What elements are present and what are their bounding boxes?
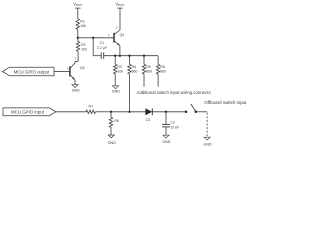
offboard dashed return wire: [206, 113, 208, 138]
wire R1 to node A: [77, 29, 79, 37]
wire R8 to ground: [110, 127, 112, 135]
svg-text:GND: GND: [112, 90, 121, 94]
svg-text:R8: R8: [114, 119, 119, 123]
ground under C2: [162, 135, 169, 138]
switch S1 right contact: [195, 111, 198, 114]
net flag MCU GPIO input: [3, 108, 56, 116]
ground under Q2: [71, 85, 78, 88]
svg-text:10k: 10k: [80, 24, 86, 28]
Q1 emitter arrow: [117, 43, 120, 45]
wire C1 branch to C1 left plate: [93, 55, 101, 57]
junction C1 branch: [92, 37, 94, 39]
svg-text:R6: R6: [160, 65, 165, 69]
wire MCU GPIO output to Q2 base: [54, 71, 70, 73]
svg-text:2: 2: [75, 57, 77, 61]
junction R4 on rail: [128, 111, 130, 113]
svg-text:D1: D1: [146, 118, 151, 122]
junction node A (R1/R2/base line): [77, 37, 79, 39]
svg-text:R3: R3: [117, 65, 122, 69]
wire Q2 collector up: [74, 61, 76, 63]
wire R8 junction to D1: [111, 111, 145, 113]
net flag MCU GPIO output: [3, 67, 55, 76]
svg-text:R2: R2: [81, 43, 86, 47]
svg-text:Q2: Q2: [80, 66, 85, 70]
wire R8 down: [110, 112, 112, 118]
switch S1 lever: [191, 104, 196, 111]
svg-text:MCU GPIO output: MCU GPIO output: [14, 69, 50, 74]
wire VBATT1 to R1: [77, 8, 79, 19]
resistor R8: [109, 117, 112, 127]
wire switch to offboard return: [196, 111, 207, 113]
svg-text:GND: GND: [203, 143, 212, 147]
svg-text:10k: 10k: [117, 70, 123, 74]
svg-text:R5: R5: [146, 65, 151, 69]
wire C1 branch down: [92, 38, 94, 56]
wire R7 to R8 junction: [96, 111, 112, 113]
svg-text:100: 100: [81, 48, 87, 52]
resistor R2: [76, 41, 79, 51]
transistor Q2 base bar: [69, 66, 71, 76]
svg-text:1: 1: [67, 66, 69, 70]
svg-text:GND: GND: [108, 141, 117, 145]
transistor Q1 base bar: [113, 33, 115, 43]
svg-text:VBATT: VBATT: [73, 2, 83, 8]
svg-text:MCU GPIO input: MCU GPIO input: [11, 110, 45, 115]
wire input flag to R7: [56, 111, 86, 113]
wire D1 to switch: [152, 111, 186, 113]
wire C1 branch to Q1 base: [93, 37, 114, 39]
svg-text:Offboard switch input: Offboard switch input: [204, 100, 247, 105]
switch S1 left contact: [185, 111, 188, 114]
svg-text:1: 1: [108, 33, 110, 37]
svg-text:10 nF: 10 nF: [170, 125, 179, 129]
ground under R3: [112, 86, 119, 89]
svg-text:GND: GND: [72, 88, 81, 92]
open stub under R5 (additional switch tap): [143, 74, 145, 87]
wire node to R3: [114, 56, 116, 64]
junction R3 tap: [114, 55, 116, 57]
resistor R5: [142, 64, 145, 74]
open stub under R6 (additional switch tap): [157, 74, 159, 87]
resistor R6: [156, 64, 159, 74]
wire node to R5: [143, 56, 145, 64]
wire C2 to ground: [165, 127, 167, 135]
svg-text:R4: R4: [132, 65, 137, 69]
Q1 emitter leg: [114, 41, 120, 46]
Q2 collector leg: [70, 63, 75, 68]
ground under R8: [108, 135, 115, 138]
wire Q1 emitter to node line: [119, 46, 121, 56]
svg-text:2.2 µF: 2.2 µF: [97, 46, 107, 50]
capacitor C2 plates: [162, 123, 170, 125]
svg-text:R1: R1: [80, 19, 85, 23]
diode D1: [145, 108, 152, 115]
Q2 emitter leg: [70, 75, 75, 80]
svg-text:C1: C1: [100, 41, 105, 45]
svg-text:2: 2: [116, 26, 118, 30]
wire C2 down: [165, 112, 167, 125]
junction R5 tap: [143, 55, 145, 57]
junction C2 tap: [165, 111, 167, 113]
capacitor C1 plates: [100, 52, 102, 59]
wire node to R4: [129, 56, 131, 64]
svg-text:VBATT: VBATT: [115, 2, 125, 8]
wire R2 to jog: [77, 51, 79, 61]
wire node to R6: [157, 56, 159, 64]
junction R8 tap: [110, 111, 112, 113]
resistor R4: [128, 64, 131, 74]
wire wetting node line: [104, 55, 158, 57]
svg-text:Q1: Q1: [120, 33, 125, 37]
resistor R7: [86, 110, 96, 113]
svg-text:GND: GND: [162, 140, 171, 144]
wire R4 to switch rail: [129, 74, 131, 112]
junction Q1 emitter on node line: [119, 55, 121, 57]
resistor R3: [114, 64, 117, 74]
Q2 emitter arrow: [72, 77, 75, 79]
svg-text:560: 560: [132, 70, 138, 74]
wire jog to Q2 collector: [75, 60, 78, 62]
resistor R1: [76, 19, 79, 30]
wire node A to R2: [77, 38, 79, 42]
svg-text:Additional switch input wiring: Additional switch input wiring connects: [137, 90, 212, 95]
junction R4 tap: [128, 55, 130, 57]
svg-text:560: 560: [146, 70, 152, 74]
ground offboard (chassis): [204, 137, 211, 140]
wire node A to C1 branch (Q1 base line, left part): [78, 37, 93, 39]
wire Q2 emitter to ground: [74, 80, 76, 85]
Q1 collector leg: [114, 30, 120, 35]
wire VBATT2 to Q1 collector: [119, 8, 121, 30]
svg-text:C2: C2: [170, 121, 175, 125]
svg-text:560: 560: [160, 70, 166, 74]
svg-text:R7: R7: [89, 105, 94, 109]
wire R3 to ground: [114, 74, 116, 86]
